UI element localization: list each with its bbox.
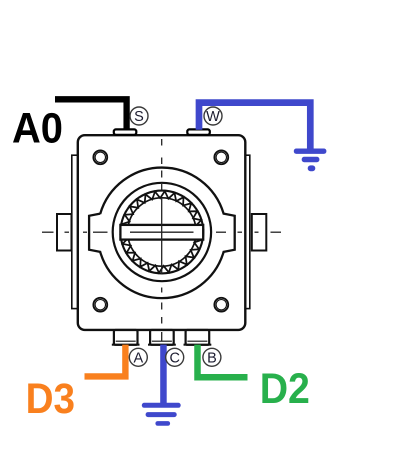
svg-text:A: A bbox=[133, 351, 143, 367]
svg-text:B: B bbox=[207, 351, 217, 367]
svg-text:D3: D3 bbox=[26, 375, 75, 423]
svg-text:S: S bbox=[134, 109, 144, 125]
svg-text:A0: A0 bbox=[12, 104, 63, 152]
svg-text:W: W bbox=[206, 109, 220, 125]
svg-text:C: C bbox=[169, 351, 179, 367]
svg-text:D2: D2 bbox=[260, 365, 310, 413]
